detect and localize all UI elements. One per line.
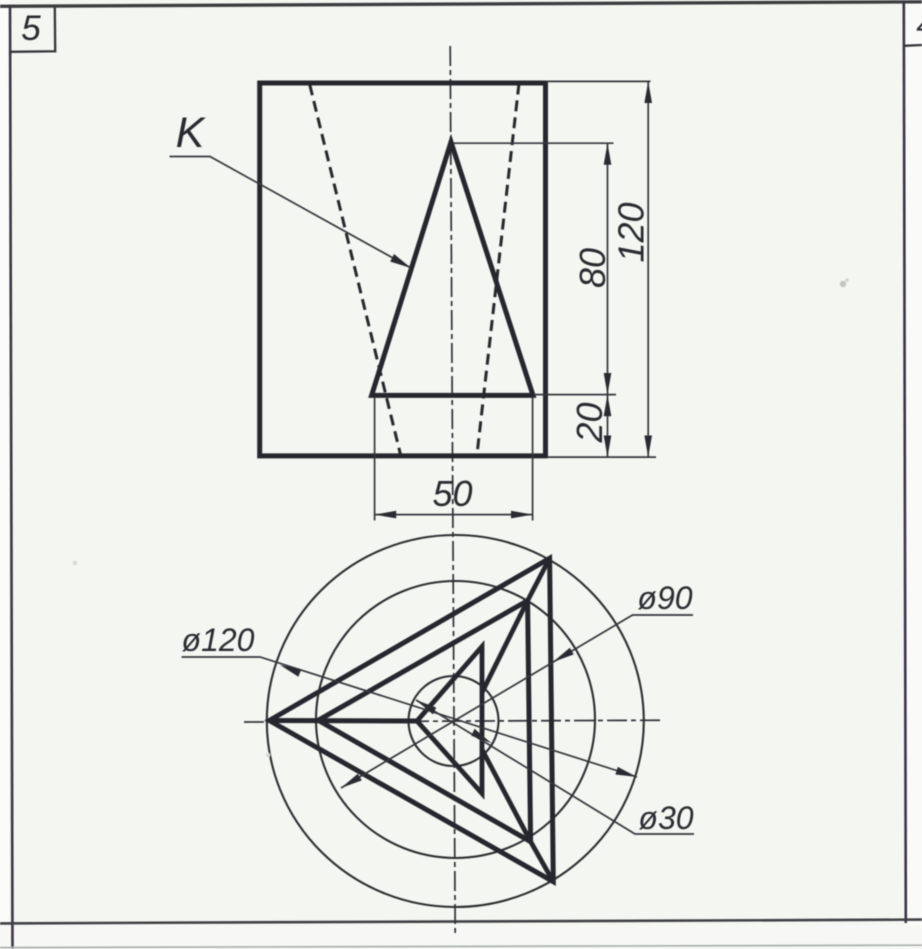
edge inner TR to small triangle <box>482 601 528 693</box>
svg-text:K: K <box>176 109 207 157</box>
extension line apex (80) <box>453 142 614 144</box>
edge left vertex to apex <box>269 718 417 724</box>
circle D30 <box>409 676 499 766</box>
label 80 <box>572 248 613 288</box>
leader D90 <box>341 615 693 788</box>
inner triangle (D90) <box>318 601 530 842</box>
extension line top (120) <box>547 80 651 82</box>
arrow 80 bottom <box>604 373 612 395</box>
svg-text:80: 80 <box>572 248 613 288</box>
task number box 5 <box>11 7 56 52</box>
dim line 120 <box>647 81 649 457</box>
outer triangle (base, D120) <box>269 558 553 881</box>
arrow 50 right <box>511 511 533 519</box>
hidden edge dashed left <box>310 85 401 455</box>
svg-text:ø90: ø90 <box>637 580 692 616</box>
arrow 20 bottom <box>604 436 612 458</box>
arrow D90 upper (pointing down-left) <box>553 648 574 662</box>
arrow D30 far (pointing up-left) <box>416 700 436 714</box>
frame top line <box>0 2 922 7</box>
extension line 50 right <box>532 397 534 521</box>
extension line base right (80/20) <box>534 394 616 396</box>
arrow 120 bottom <box>644 436 652 458</box>
circle D90 <box>316 581 595 858</box>
page bottom edge shadow <box>0 945 922 947</box>
leader D120 <box>182 657 638 777</box>
circle D120 <box>267 535 644 907</box>
svg-text:20: 20 <box>569 402 610 443</box>
extension line 50 left <box>374 397 376 521</box>
task number box 4 (partial, right edge) <box>904 44 922 47</box>
label 120 <box>611 202 652 262</box>
arrow 120 top <box>644 81 652 103</box>
svg-text:4: 4 <box>916 8 922 43</box>
svg-text:ø30: ø30 <box>638 800 693 836</box>
leader D30 <box>416 700 694 834</box>
arrow K leader <box>390 254 411 268</box>
arrow D90 lower (pointing down-left) <box>341 774 362 788</box>
svg-text:50: 50 <box>432 473 472 514</box>
K leader <box>170 157 412 269</box>
svg-text:120: 120 <box>611 202 652 262</box>
arrow D120 left (on circle, pointing up-left) <box>280 665 301 677</box>
edge inner BR to small triangle <box>482 750 531 842</box>
edge outer TR to inner TR <box>528 558 550 600</box>
dim line 50 <box>375 514 533 516</box>
label 20 <box>569 402 610 443</box>
svg-text:5: 5 <box>21 9 41 48</box>
arrow D120 right (on circle, pointing down-right) <box>615 767 637 777</box>
frame bottom line <box>0 920 922 924</box>
arrow 50 left <box>375 511 397 519</box>
frame right line <box>904 2 906 924</box>
cone triangle <box>372 142 533 395</box>
cylinder rectangle (prism outline) <box>260 83 546 456</box>
arrow 20 top <box>604 395 612 417</box>
small triangle (apex) <box>417 647 482 794</box>
centerline (vertical axis, both views) <box>450 46 455 935</box>
arrow D30 near (pointing down-right) <box>471 729 491 743</box>
extension line bottom (20/120) <box>547 456 656 458</box>
hidden edge dashed right <box>477 84 519 455</box>
horizontal centerline <box>244 720 663 722</box>
frame left line <box>10 5 13 949</box>
dim line 80/20 <box>607 143 609 457</box>
edge outer BR to inner BR <box>531 842 554 882</box>
svg-text:ø120: ø120 <box>182 622 255 658</box>
arrow 80 top <box>604 143 612 165</box>
